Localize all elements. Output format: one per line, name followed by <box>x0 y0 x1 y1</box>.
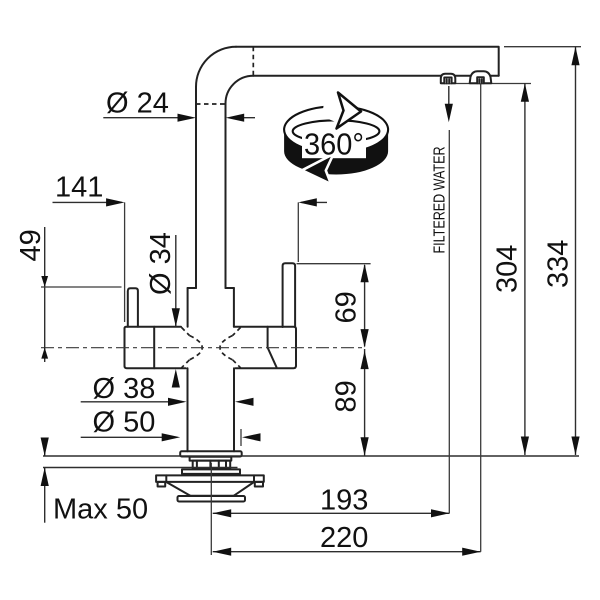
spout elbow <box>196 47 253 104</box>
main aerator <box>470 71 492 83</box>
dimension 334 <box>504 47 581 455</box>
svg-text:Max 50: Max 50 <box>53 494 148 526</box>
aerator outlet line <box>441 83 531 85</box>
svg-text:49: 49 <box>15 229 47 261</box>
svg-text:69: 69 <box>330 291 362 323</box>
ring side band <box>284 130 388 175</box>
svg-text:Ø 24: Ø 24 <box>106 88 169 120</box>
ring top face <box>284 106 388 153</box>
svg-text:220: 220 <box>320 522 368 554</box>
svg-text:Ø 34: Ø 34 <box>145 232 177 295</box>
left ball joint (hidden lines) <box>182 327 203 367</box>
dimension 220 <box>213 84 481 556</box>
dimension Ø50 <box>81 407 261 447</box>
svg-text:193: 193 <box>320 484 368 516</box>
left lever <box>128 288 138 327</box>
svg-text:89: 89 <box>330 380 362 412</box>
right ball joint (hidden lines) <box>220 327 241 367</box>
rotation arrow head (black) <box>332 149 352 157</box>
rotation arrow head (white) <box>337 93 362 129</box>
dimension Ø34 <box>145 232 180 387</box>
mounting ring <box>190 457 232 461</box>
dimension 304 <box>492 83 530 455</box>
dimension 69 <box>297 264 371 348</box>
threaded shank <box>193 461 231 469</box>
arrow wake (white) <box>322 96 347 127</box>
mounting bracket <box>156 475 264 486</box>
svg-text:141: 141 <box>55 172 103 204</box>
dimension 193 <box>213 130 450 517</box>
clamp cone <box>166 482 254 496</box>
elbow tangent dashed lines <box>196 47 253 104</box>
svg-text:334: 334 <box>543 240 575 288</box>
dimension 89 <box>330 349 368 456</box>
filtered water aerator <box>441 74 456 84</box>
counter top line <box>43 455 579 457</box>
dimension Max 50 <box>41 438 149 526</box>
washer plate <box>182 469 240 474</box>
svg-text:304: 304 <box>492 245 524 293</box>
svg-text:360°: 360° <box>304 127 364 162</box>
body bottom edges <box>125 366 297 368</box>
bottom nut <box>178 496 246 502</box>
body top edges <box>125 327 297 329</box>
svg-text:Ø 50: Ø 50 <box>93 407 156 439</box>
svg-text:Ø 38: Ø 38 <box>93 373 156 405</box>
base flange <box>180 451 242 456</box>
body left end cap <box>125 327 155 368</box>
lower column <box>188 368 235 451</box>
dimension 49 <box>15 227 121 362</box>
svg-text:FILTERED WATER: FILTERED WATER <box>432 147 449 254</box>
centerline through body <box>41 347 365 349</box>
column shoulder ledge <box>188 287 234 289</box>
label background <box>302 126 366 158</box>
dimension 141 <box>53 172 328 323</box>
360 rotation icon <box>284 93 388 185</box>
spout top tube <box>236 47 499 76</box>
spout riser tube <box>196 87 226 288</box>
dimension Ø38 <box>81 373 254 406</box>
filtered water arrow <box>445 86 453 122</box>
upper column <box>188 288 234 327</box>
counter bottom line <box>43 467 238 469</box>
dimension Ø24 <box>103 88 255 122</box>
right lever <box>283 263 296 327</box>
center axis line <box>210 463 212 555</box>
body right end with angled handle base <box>268 327 296 367</box>
